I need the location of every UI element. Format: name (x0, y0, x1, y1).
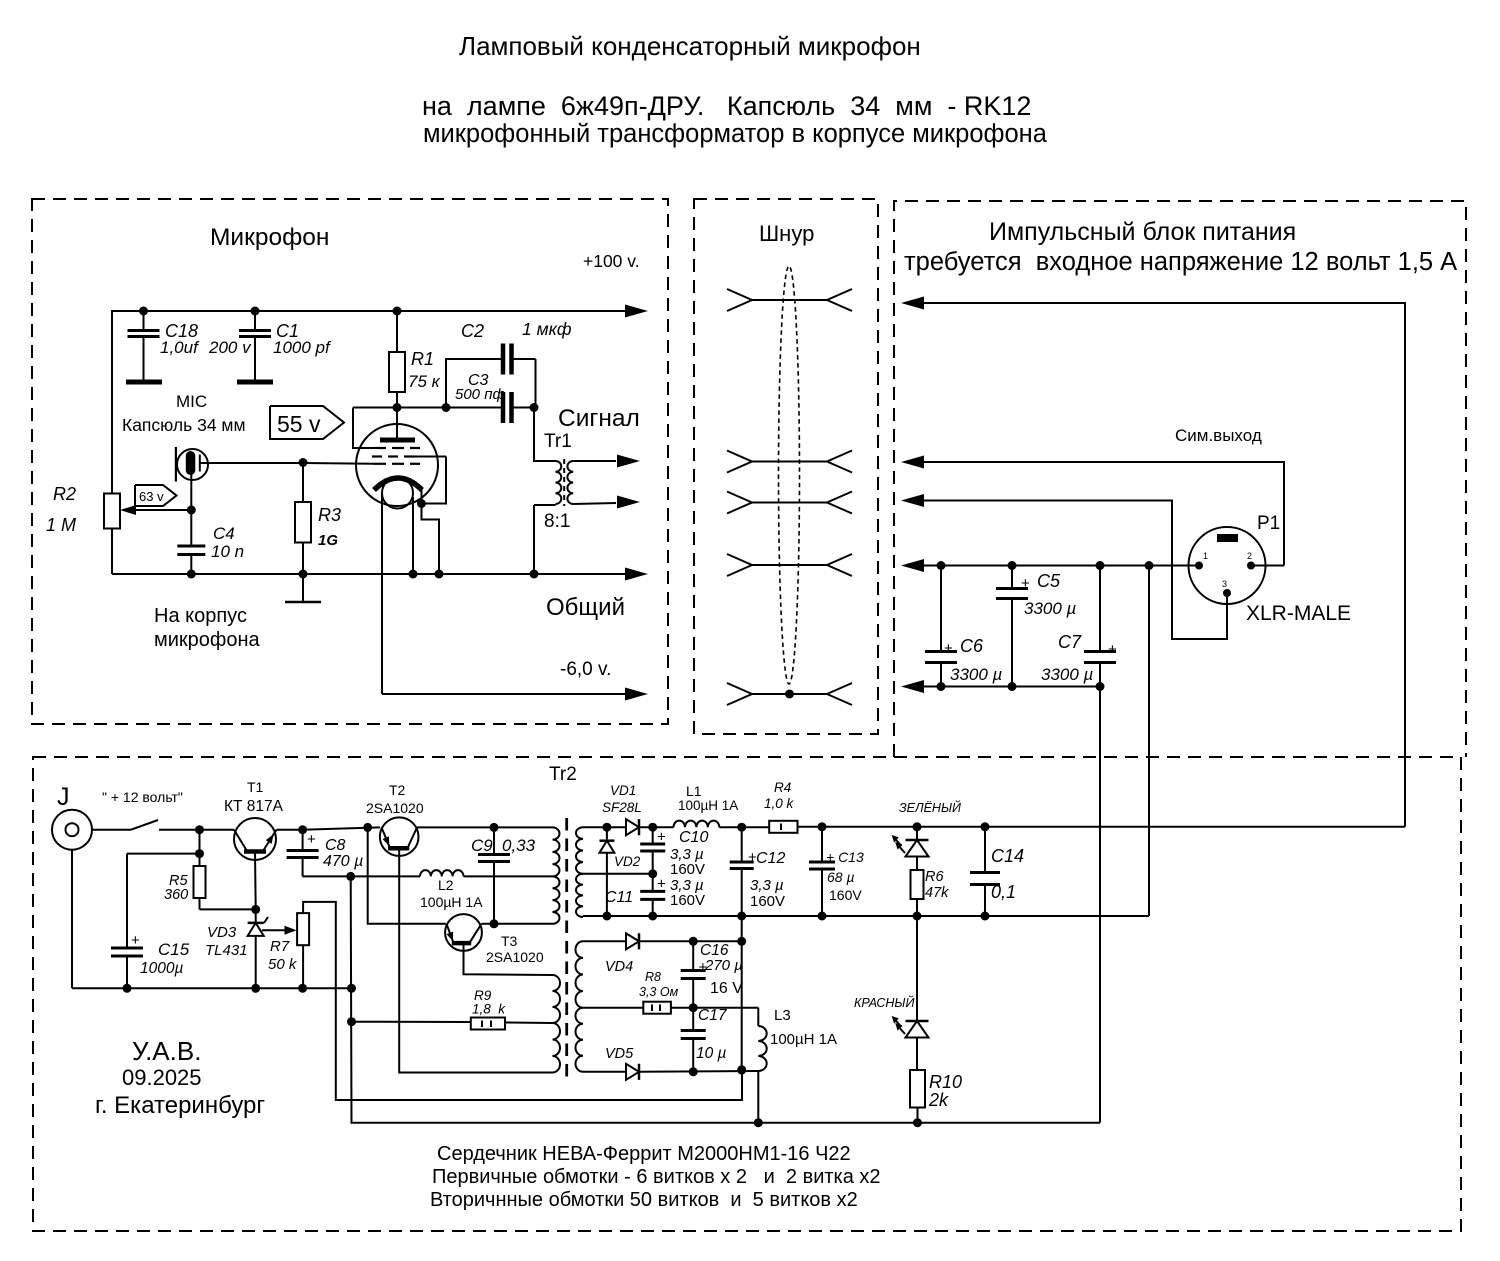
svg-text:C5: C5 (1037, 571, 1061, 591)
svg-text:100µН 1А: 100µН 1А (678, 798, 738, 813)
svg-text:У.А.В.: У.А.В. (132, 1036, 201, 1066)
svg-text:Сердечник НЕВА-Феррит М2000НМ1: Сердечник НЕВА-Феррит М2000НМ1-16 Ч22 (437, 1143, 851, 1165)
svg-text:T1: T1 (247, 779, 264, 795)
svg-text:C11: C11 (605, 889, 633, 906)
svg-text:L2: L2 (438, 877, 454, 893)
svg-text:1,0uf: 1,0uf (160, 338, 200, 357)
svg-text:200 v: 200 v (208, 338, 252, 357)
svg-text:Ламповый конденсаторный микроф: Ламповый конденсаторный микрофон (459, 31, 921, 61)
svg-text:+: + (307, 831, 316, 848)
svg-text:VD2: VD2 (614, 854, 641, 869)
svg-text:2: 2 (1247, 551, 1252, 561)
svg-text:1 M: 1 M (46, 515, 76, 535)
svg-text:L1: L1 (686, 783, 702, 799)
svg-text:Первичные обмотки - 6 витков х: Первичные обмотки - 6 витков х 2 и 2 вит… (432, 1166, 881, 1188)
svg-text:Tr2: Tr2 (549, 764, 577, 785)
svg-text:R2: R2 (53, 484, 76, 504)
svg-text:Капсюль 34 мм: Капсюль 34 мм (122, 415, 245, 435)
svg-text:+ C13: + C13 (826, 849, 864, 865)
svg-text:500 пф: 500 пф (455, 386, 505, 403)
svg-text:На корпус: На корпус (154, 605, 247, 627)
svg-text:+100 v.: +100 v. (583, 251, 640, 271)
svg-text:1000µ: 1000µ (140, 960, 183, 977)
svg-text:1 мкф: 1 мкф (522, 319, 572, 339)
svg-text:R3: R3 (318, 505, 341, 525)
svg-text:+: + (944, 640, 953, 657)
svg-text:10 µ: 10 µ (696, 1045, 727, 1062)
svg-text:2SA1020: 2SA1020 (486, 949, 544, 965)
svg-text:КТ 817А: КТ 817А (224, 798, 284, 815)
svg-text:1000 pf: 1000 pf (273, 338, 332, 357)
svg-text:1G: 1G (318, 532, 338, 549)
svg-text:160V: 160V (670, 892, 705, 909)
svg-text:0,33: 0,33 (502, 836, 536, 855)
svg-text:C14: C14 (991, 846, 1024, 866)
svg-text:TL431: TL431 (205, 942, 248, 959)
svg-text:R1: R1 (411, 349, 434, 369)
svg-text:3,3 Ом: 3,3 Ом (639, 985, 679, 999)
svg-text:MIC: MIC (176, 392, 207, 411)
svg-text:63 v: 63 v (139, 489, 164, 504)
svg-text:Вторичнные обмотки 50 витков: Вторичнные обмотки 50 витков и 5 витков … (430, 1189, 858, 1211)
svg-text:+: + (131, 932, 140, 949)
svg-text:Сим.выход: Сим.выход (1175, 426, 1262, 445)
svg-text:г. Екатеринбург: г. Екатеринбург (95, 1092, 265, 1119)
svg-text:160V: 160V (750, 893, 785, 910)
svg-text:+: + (657, 829, 666, 846)
svg-text:SF28L: SF28L (602, 800, 642, 815)
svg-text:47k: 47k (925, 885, 949, 901)
svg-text:09.2025: 09.2025 (122, 1065, 202, 1090)
svg-text:160V: 160V (670, 861, 705, 878)
svg-text:Сигнал: Сигнал (558, 405, 640, 432)
svg-text:1,0 k: 1,0 k (764, 796, 795, 811)
svg-text:Импульсный блок питания: Импульсный блок питания (989, 218, 1296, 246)
svg-text:0,1: 0,1 (991, 882, 1016, 902)
svg-text:Микрофон: Микрофон (210, 224, 329, 251)
svg-text:T3: T3 (501, 933, 518, 949)
svg-text:8:1: 8:1 (544, 511, 570, 532)
svg-text:75 к: 75 к (408, 372, 441, 391)
svg-text:R7: R7 (270, 938, 290, 955)
svg-text:68 µ: 68 µ (827, 869, 855, 885)
svg-text:16 V: 16 V (710, 980, 743, 997)
svg-text:C8: C8 (325, 837, 346, 854)
svg-text:-6,0 v.: -6,0 v. (560, 659, 611, 680)
svg-text:1: 1 (1203, 551, 1208, 561)
svg-text:VD3: VD3 (207, 924, 237, 941)
svg-text:микрофона: микрофона (154, 629, 261, 651)
svg-text:T2: T2 (389, 782, 406, 798)
svg-text:C7: C7 (1058, 632, 1082, 652)
svg-text:470 µ: 470 µ (323, 853, 363, 870)
svg-text:2k: 2k (928, 1090, 949, 1110)
svg-text:3300 µ: 3300 µ (1024, 599, 1077, 618)
svg-text:R8: R8 (645, 970, 661, 984)
svg-text:55 v: 55 v (277, 411, 321, 437)
svg-text:160V: 160V (829, 887, 862, 903)
svg-text:C6: C6 (960, 636, 984, 656)
svg-text:C10: C10 (679, 829, 708, 846)
svg-text:C12: C12 (756, 850, 785, 867)
svg-text:270 µ: 270 µ (704, 957, 743, 974)
svg-text:J: J (57, 783, 70, 811)
svg-text:C9: C9 (471, 836, 493, 855)
svg-text:1,8 k: 1,8 k (472, 1002, 506, 1017)
svg-text:КРАСНЫЙ: КРАСНЫЙ (854, 994, 914, 1010)
svg-text:C4: C4 (213, 524, 235, 543)
svg-text:Общий: Общий (546, 594, 625, 621)
svg-text:+: + (657, 876, 666, 893)
svg-text:+: + (1108, 641, 1117, 658)
svg-text:C2: C2 (461, 321, 484, 341)
svg-text:VD5: VD5 (605, 1046, 634, 1062)
svg-text:VD4: VD4 (605, 959, 633, 975)
svg-text:C17: C17 (698, 1007, 728, 1024)
svg-text:R6: R6 (925, 869, 944, 885)
svg-text:микрофонный трансформатор в ко: микрофонный трансформатор в корпусе микр… (423, 120, 1048, 148)
svg-text:L3: L3 (774, 1007, 791, 1024)
svg-text:360: 360 (164, 887, 188, 903)
svg-text:на лампе 6ж49п-ДРУ. Капсюл: на лампе 6ж49п-ДРУ. Капсюль 34 мм - RK12 (422, 91, 1031, 121)
svg-text:R4: R4 (774, 780, 791, 795)
svg-text:XLR-MALE: XLR-MALE (1246, 602, 1351, 625)
svg-text:3300 µ: 3300 µ (950, 665, 1003, 684)
svg-text:10 n: 10 n (211, 542, 244, 561)
svg-text:3,3 µ: 3,3 µ (750, 877, 784, 894)
svg-text:+: + (1021, 575, 1030, 592)
svg-text:50 k: 50 k (268, 956, 298, 973)
svg-text:C15: C15 (158, 940, 190, 959)
svg-text:Шнур: Шнур (759, 221, 814, 246)
svg-text:P1: P1 (1257, 513, 1280, 534)
svg-text:R10: R10 (929, 1072, 962, 1092)
svg-text:" + 12 вольт": " + 12 вольт" (102, 789, 183, 805)
svg-text:3300 µ: 3300 µ (1041, 665, 1094, 684)
svg-text:ЗЕЛЁНЫЙ: ЗЕЛЁНЫЙ (899, 799, 961, 815)
svg-text:Tr1: Tr1 (544, 431, 572, 452)
svg-text:100µН 1А: 100µН 1А (420, 894, 483, 910)
svg-text:требуется входное напряжение: требуется входное напряжение 12 вольт 1,… (904, 248, 1457, 276)
svg-text:3: 3 (1222, 579, 1227, 589)
svg-text:100µН 1А: 100µН 1А (770, 1031, 837, 1048)
svg-text:2SA1020: 2SA1020 (366, 800, 424, 816)
svg-text:VD1: VD1 (610, 783, 636, 798)
